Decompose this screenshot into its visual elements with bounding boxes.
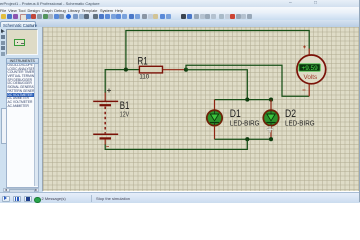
node junction on LED top rail — [245, 98, 249, 102]
LED D1 body — [207, 110, 222, 125]
LED D2 bottom pin — [270, 125, 272, 139]
wire: LED bottom rail — [215, 138, 272, 140]
LED D2 top pin — [270, 100, 272, 111]
voltmeter - terminal label — [303, 89, 306, 91]
node junction at D2 cathode — [269, 137, 273, 141]
battery B1 cell plates — [93, 101, 118, 138]
battery B1 polarity + label — [107, 89, 111, 93]
node junction at R1 left / battery / top-rail — [124, 68, 128, 72]
battery B1 top pin — [104, 93, 106, 102]
voltmeter bottom pin — [308, 84, 310, 96]
LED D1 bottom pin — [214, 125, 216, 139]
wire: battery top to R1 left pin — [105, 70, 139, 93]
voltmeter + terminal label — [303, 45, 306, 48]
resistor R1 right pin — [163, 69, 187, 71]
voltmeter body — [297, 55, 326, 84]
node junction at D2 anode — [269, 98, 273, 102]
wire: R1 right junction to LED top rail — [186, 70, 247, 100]
wire: LED top rail — [215, 99, 272, 101]
wire: battery positive up to top rail corner and across to voltmeter column — [126, 31, 309, 70]
battery B1 bottom pin — [104, 139, 106, 145]
node junction at R1 right — [184, 68, 188, 72]
LED D1 top pin — [214, 100, 216, 111]
mouse cursor crosshair — [267, 126, 273, 132]
resistor R1 body — [139, 66, 162, 73]
battery B1 polarity - label — [106, 145, 109, 147]
wire: bottom return rail to battery negative — [105, 139, 247, 149]
node junction on LED bottom rail — [245, 137, 249, 141]
LED D2 body — [263, 110, 278, 125]
wire: R1 right junction up-and-over to voltmeter negative — [186, 65, 309, 96]
voltmeter top pin — [308, 49, 310, 56]
